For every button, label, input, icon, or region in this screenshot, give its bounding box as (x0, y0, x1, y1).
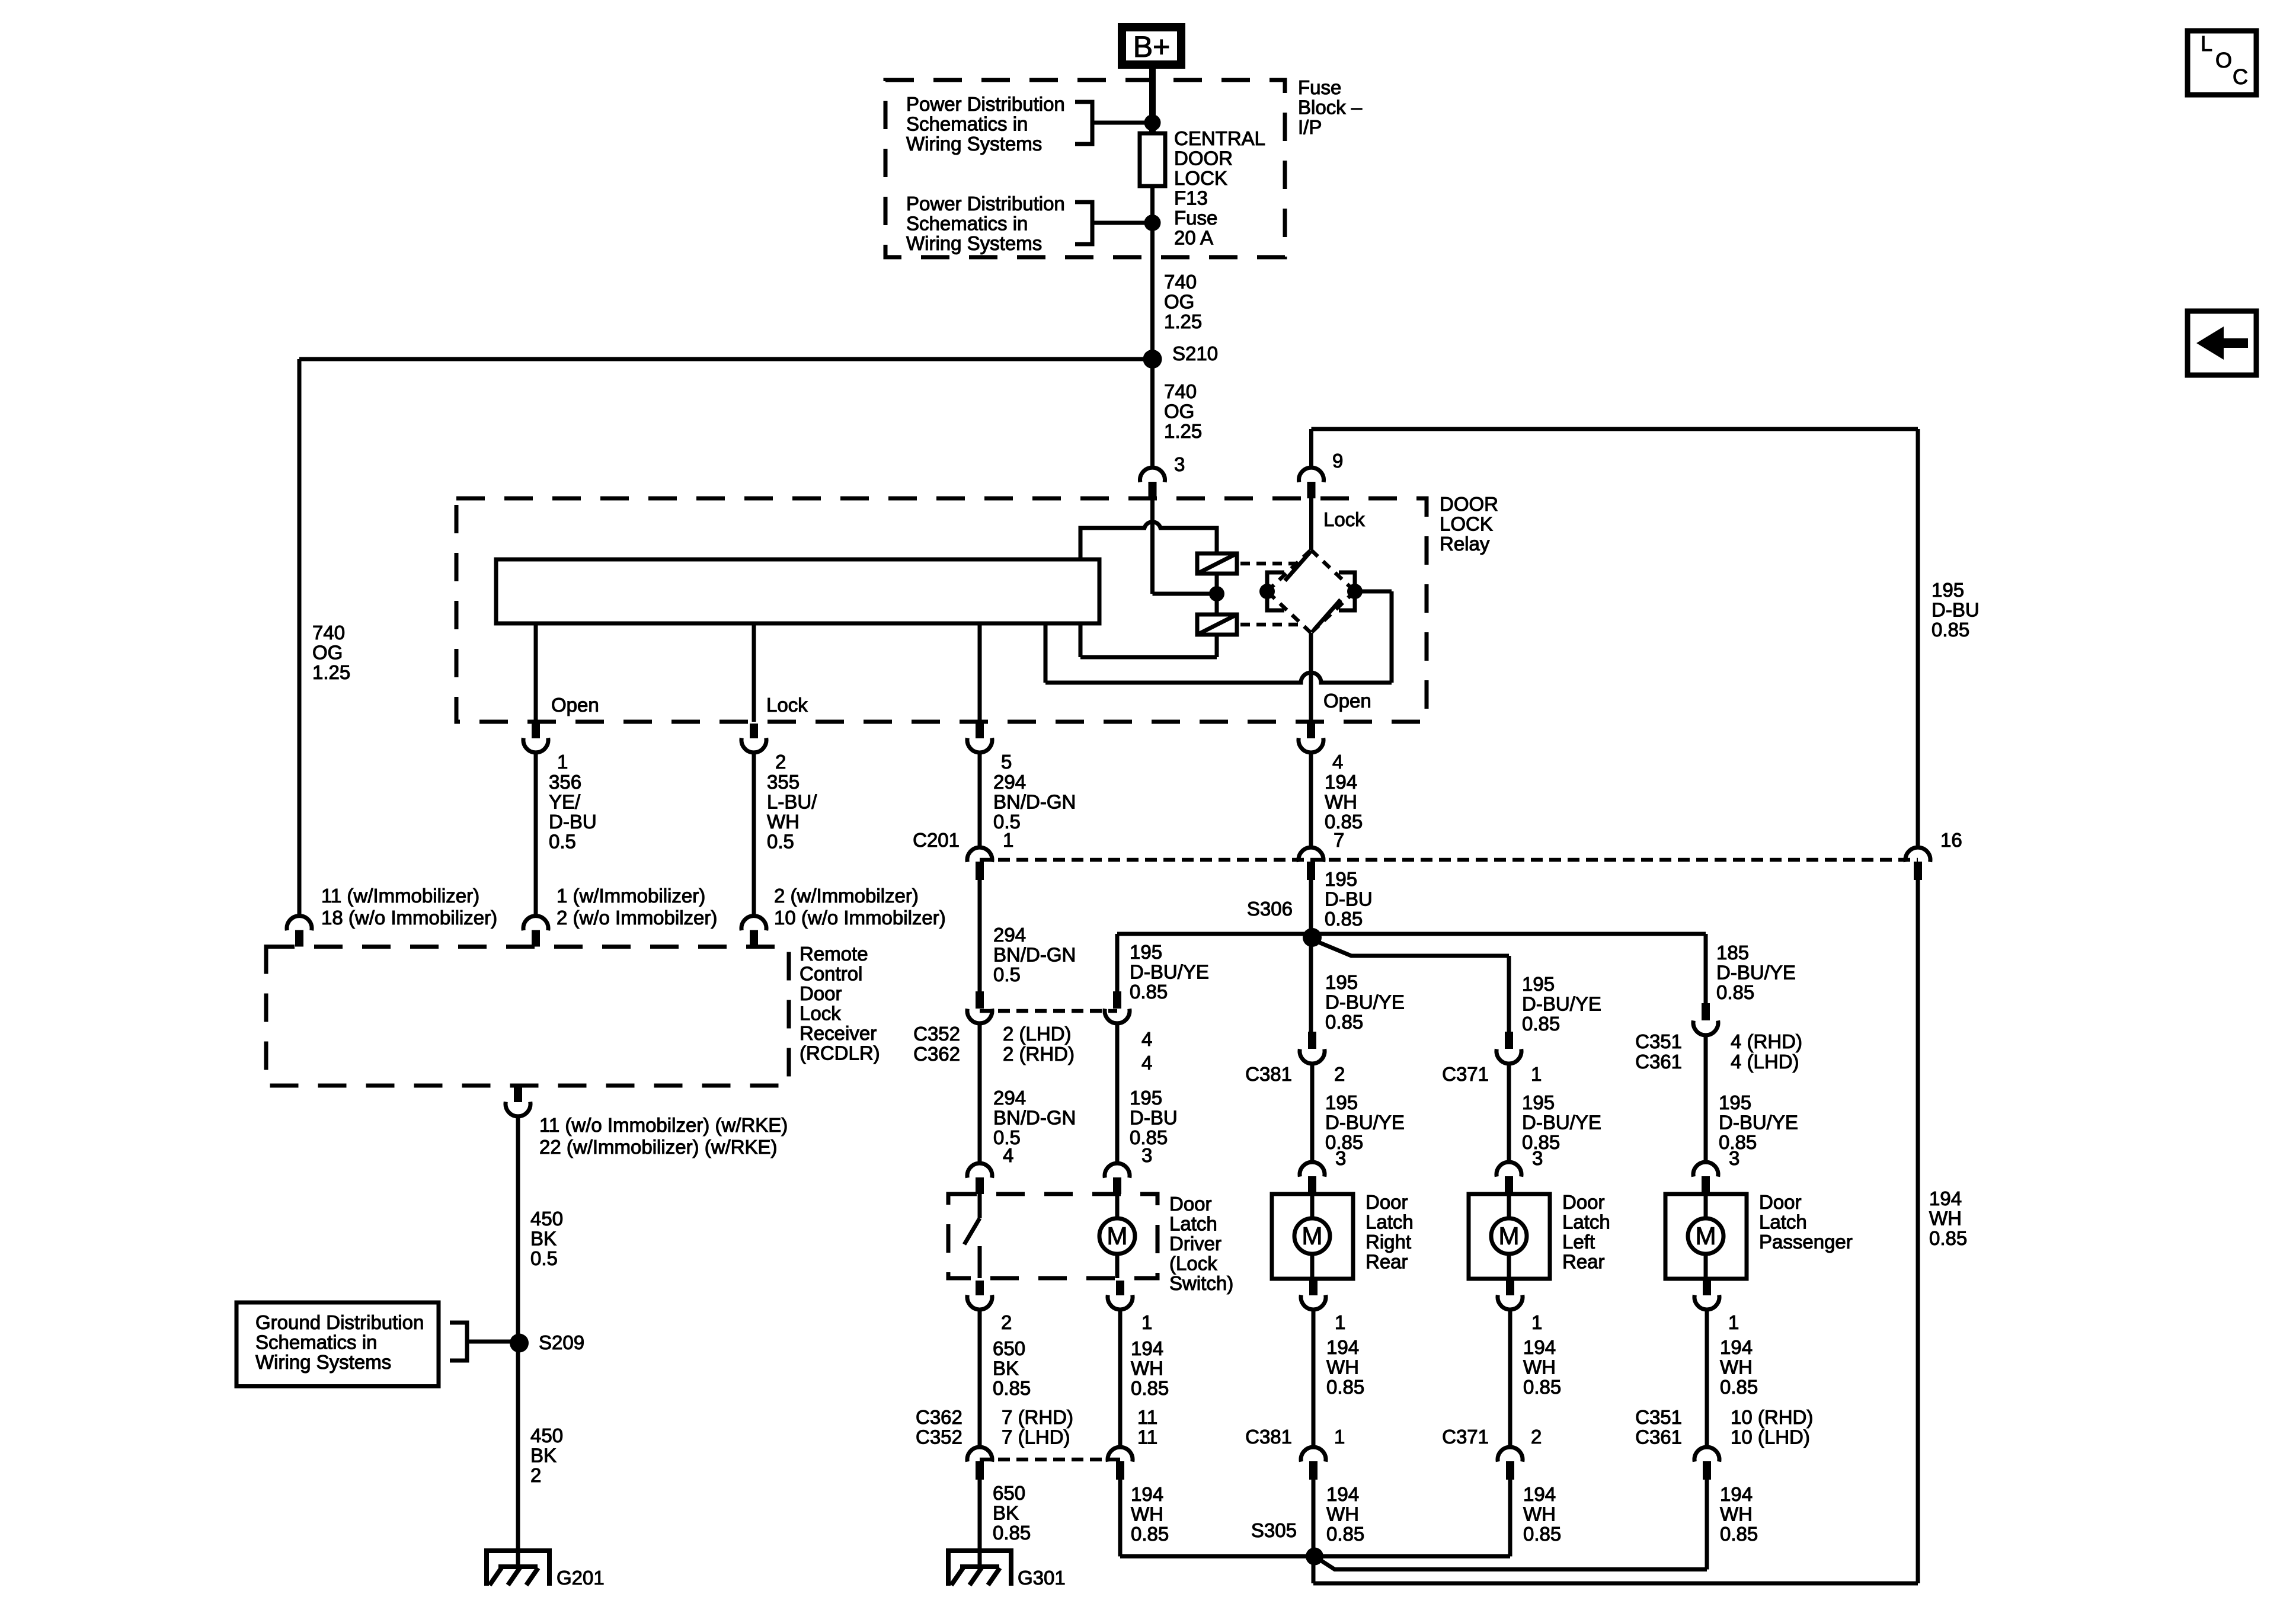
svg-text:0.85: 0.85 (1523, 1376, 1561, 1398)
svg-text:195: 195 (1130, 941, 1162, 963)
svg-text:1: 1 (1531, 1063, 1542, 1085)
svg-text:Wiring Systems: Wiring Systems (906, 133, 1042, 155)
svg-text:C381: C381 (1245, 1426, 1292, 1448)
svg-text:L-BU/: L-BU/ (767, 791, 817, 813)
svg-text:5: 5 (1001, 751, 1012, 773)
svg-text:4: 4 (1141, 1052, 1152, 1074)
svg-text:D-BU/YE: D-BU/YE (1719, 1112, 1798, 1134)
svg-text:3: 3 (1335, 1147, 1346, 1169)
svg-text:1: 1 (1334, 1426, 1345, 1448)
svg-text:BK: BK (993, 1502, 1019, 1524)
svg-text:1: 1 (1728, 1311, 1739, 1333)
svg-text:0.5: 0.5 (530, 1247, 558, 1269)
svg-text:Ground Distribution: Ground Distribution (255, 1311, 424, 1333)
svg-text:Power Distribution: Power Distribution (906, 193, 1065, 215)
svg-text:450: 450 (530, 1208, 563, 1230)
svg-text:3: 3 (1174, 453, 1185, 475)
svg-text:Lock: Lock (766, 694, 808, 716)
svg-text:Open: Open (1323, 690, 1371, 712)
svg-text:CENTRAL: CENTRAL (1174, 127, 1265, 149)
svg-text:BN/D-GN: BN/D-GN (993, 944, 1076, 966)
svg-text:WH: WH (767, 811, 800, 833)
svg-text:D-BU: D-BU (549, 811, 597, 833)
svg-text:LOCK: LOCK (1174, 167, 1227, 189)
svg-text:0.5: 0.5 (549, 831, 576, 853)
svg-text:195: 195 (1325, 971, 1358, 993)
svg-text:194: 194 (1325, 771, 1357, 793)
svg-text:C362: C362 (916, 1406, 962, 1428)
svg-text:740: 740 (1164, 271, 1197, 293)
svg-text:0.85: 0.85 (1326, 1376, 1364, 1398)
svg-text:2: 2 (1531, 1426, 1542, 1448)
svg-text:M: M (1499, 1222, 1520, 1250)
svg-text:C371: C371 (1442, 1426, 1489, 1448)
svg-text:2 (w/Immobilzer): 2 (w/Immobilzer) (774, 885, 919, 907)
svg-text:10 (w/o Immobilzer): 10 (w/o Immobilzer) (774, 907, 946, 929)
svg-text:10 (LHD): 10 (LHD) (1731, 1426, 1810, 1448)
svg-text:YE/: YE/ (549, 791, 581, 813)
svg-text:Wiring Systems: Wiring Systems (906, 232, 1042, 254)
svg-text:C361: C361 (1635, 1051, 1682, 1073)
svg-text:Left: Left (1562, 1231, 1595, 1253)
svg-text:Schematics in: Schematics in (906, 213, 1028, 235)
svg-text:Switch): Switch) (1169, 1272, 1233, 1294)
svg-text:0.85: 0.85 (993, 1522, 1031, 1544)
svg-text:294: 294 (993, 924, 1026, 946)
svg-text:Door: Door (1562, 1191, 1605, 1213)
svg-text:194: 194 (1929, 1188, 1962, 1209)
svg-text:194: 194 (1326, 1336, 1359, 1358)
svg-text:195: 195 (1522, 973, 1555, 995)
svg-text:194: 194 (1720, 1336, 1753, 1358)
svg-text:4: 4 (1141, 1028, 1152, 1050)
svg-text:Relay: Relay (1440, 533, 1490, 555)
svg-text:9: 9 (1332, 450, 1343, 472)
svg-text:Door: Door (800, 982, 842, 1004)
svg-text:0.85: 0.85 (1325, 1011, 1363, 1033)
svg-text:0.85: 0.85 (1716, 981, 1754, 1003)
svg-text:S305: S305 (1251, 1519, 1297, 1541)
svg-text:194: 194 (1326, 1483, 1359, 1505)
svg-text:1.25: 1.25 (1164, 311, 1202, 332)
svg-text:20 A: 20 A (1174, 227, 1213, 249)
svg-text:BK: BK (530, 1228, 557, 1250)
svg-text:C371: C371 (1442, 1063, 1489, 1085)
svg-text:Remote: Remote (800, 943, 868, 965)
svg-text:3: 3 (1141, 1144, 1152, 1166)
svg-text:WH: WH (1131, 1503, 1163, 1525)
svg-text:C201: C201 (913, 829, 960, 851)
svg-text:10 (RHD): 10 (RHD) (1731, 1406, 1813, 1428)
svg-text:11: 11 (1137, 1406, 1157, 1428)
svg-text:C351: C351 (1635, 1406, 1682, 1428)
svg-text:Door: Door (1366, 1191, 1408, 1213)
svg-text:Receiver: Receiver (800, 1022, 877, 1044)
svg-text:Schematics in: Schematics in (255, 1331, 377, 1353)
svg-text:Rear: Rear (1562, 1251, 1605, 1273)
svg-text:Lock: Lock (800, 1003, 841, 1025)
svg-text:194: 194 (1131, 1337, 1163, 1359)
svg-text:650: 650 (993, 1482, 1025, 1504)
svg-text:OG: OG (1164, 401, 1194, 422)
svg-text:0.85: 0.85 (993, 1377, 1031, 1399)
svg-text:2 (RHD): 2 (RHD) (1003, 1043, 1075, 1065)
svg-text:650: 650 (993, 1337, 1025, 1359)
svg-text:Passenger: Passenger (1759, 1231, 1853, 1253)
svg-text:WH: WH (1523, 1503, 1556, 1525)
svg-text:WH: WH (1523, 1356, 1556, 1378)
svg-text:Wiring Systems: Wiring Systems (255, 1351, 391, 1373)
svg-text:Door: Door (1759, 1191, 1802, 1213)
svg-text:2: 2 (775, 751, 786, 773)
svg-text:11 (w/Immobilizer): 11 (w/Immobilizer) (321, 885, 479, 907)
svg-text:0.85: 0.85 (1522, 1013, 1560, 1035)
svg-text:194: 194 (1523, 1483, 1556, 1505)
svg-text:D-BU/YE: D-BU/YE (1325, 991, 1405, 1013)
svg-text:OG: OG (1164, 291, 1194, 313)
svg-text:C: C (2233, 65, 2248, 89)
svg-text:BK: BK (993, 1358, 1019, 1379)
svg-text:LOCK: LOCK (1440, 513, 1493, 535)
svg-text:1.25: 1.25 (312, 661, 350, 683)
svg-text:I/P: I/P (1298, 116, 1322, 138)
svg-text:356: 356 (549, 771, 581, 793)
svg-text:Fuse: Fuse (1174, 207, 1217, 229)
svg-text:S209: S209 (539, 1331, 584, 1353)
svg-text:355: 355 (767, 771, 800, 793)
svg-text:2: 2 (1334, 1063, 1345, 1085)
svg-text:450: 450 (530, 1425, 563, 1446)
svg-text:Latch: Latch (1169, 1213, 1217, 1235)
svg-text:0.85: 0.85 (1325, 908, 1363, 930)
svg-text:C351: C351 (1635, 1030, 1682, 1052)
svg-text:1: 1 (557, 751, 568, 773)
svg-text:Latch: Latch (1562, 1211, 1610, 1233)
svg-text:1.25: 1.25 (1164, 420, 1202, 442)
svg-text:Lock: Lock (1323, 508, 1365, 530)
svg-text:194: 194 (1523, 1336, 1556, 1358)
svg-text:Door: Door (1169, 1193, 1212, 1215)
svg-text:WH: WH (1720, 1356, 1753, 1378)
svg-text:4 (LHD): 4 (LHD) (1731, 1051, 1799, 1073)
svg-text:D-BU: D-BU (1325, 888, 1373, 910)
svg-text:Power Distribution: Power Distribution (906, 93, 1065, 115)
svg-text:4: 4 (1003, 1144, 1013, 1166)
svg-text:4 (RHD): 4 (RHD) (1731, 1030, 1802, 1052)
svg-text:DOOR: DOOR (1174, 148, 1233, 169)
svg-text:7 (LHD): 7 (LHD) (1002, 1426, 1070, 1448)
svg-text:3: 3 (1729, 1147, 1739, 1169)
svg-text:Fuse: Fuse (1298, 76, 1341, 98)
svg-text:BK: BK (530, 1445, 557, 1467)
svg-text:0.85: 0.85 (1720, 1523, 1758, 1545)
svg-text:OG: OG (312, 642, 343, 664)
svg-text:BN/D-GN: BN/D-GN (993, 1107, 1076, 1129)
svg-text:(Lock: (Lock (1169, 1253, 1217, 1275)
svg-text:195: 195 (1932, 579, 1964, 601)
svg-text:S306: S306 (1247, 898, 1293, 920)
svg-text:1: 1 (1003, 829, 1013, 851)
svg-text:195: 195 (1325, 1092, 1358, 1113)
svg-text:D-BU: D-BU (1130, 1107, 1178, 1129)
svg-text:Latch: Latch (1366, 1211, 1414, 1233)
svg-text:195: 195 (1130, 1087, 1162, 1109)
svg-text:D-BU/YE: D-BU/YE (1130, 961, 1209, 983)
svg-text:C381: C381 (1245, 1063, 1292, 1085)
svg-text:0.85: 0.85 (1130, 981, 1168, 1003)
svg-text:D-BU/YE: D-BU/YE (1325, 1112, 1405, 1134)
svg-text:BN/D-GN: BN/D-GN (993, 791, 1076, 813)
svg-text:D-BU/YE: D-BU/YE (1522, 993, 1601, 1015)
svg-text:G301: G301 (1018, 1567, 1066, 1589)
svg-text:2: 2 (530, 1464, 541, 1486)
svg-text:S210: S210 (1172, 343, 1218, 364)
svg-text:Driver: Driver (1169, 1233, 1221, 1254)
svg-text:3: 3 (1532, 1147, 1543, 1169)
svg-text:195: 195 (1719, 1092, 1751, 1113)
svg-text:195: 195 (1325, 868, 1357, 890)
svg-text:O: O (2215, 48, 2232, 72)
svg-text:22 (w/Immobilizer) (w/RKE): 22 (w/Immobilizer) (w/RKE) (539, 1136, 778, 1158)
svg-text:194: 194 (1131, 1483, 1163, 1505)
svg-text:Latch: Latch (1759, 1211, 1807, 1233)
svg-text:D-BU/YE: D-BU/YE (1522, 1112, 1601, 1134)
svg-text:(RCDLR): (RCDLR) (800, 1042, 880, 1064)
svg-text:WH: WH (1929, 1208, 1962, 1230)
svg-text:4: 4 (1332, 751, 1343, 773)
svg-text:2: 2 (1001, 1311, 1012, 1333)
svg-text:Open: Open (551, 694, 599, 716)
svg-text:0.5: 0.5 (767, 831, 794, 853)
svg-text:194: 194 (1720, 1483, 1753, 1505)
svg-text:G201: G201 (557, 1567, 605, 1589)
svg-text:1 (w/Immobilizer): 1 (w/Immobilizer) (557, 885, 705, 907)
svg-text:7: 7 (1334, 829, 1344, 851)
svg-text:D-BU: D-BU (1932, 599, 1980, 621)
svg-text:WH: WH (1326, 1356, 1359, 1378)
svg-text:C352: C352 (916, 1426, 962, 1448)
svg-text:Right: Right (1366, 1231, 1411, 1253)
svg-text:M: M (1107, 1222, 1128, 1250)
svg-text:1: 1 (1335, 1311, 1345, 1333)
svg-text:195: 195 (1522, 1092, 1555, 1113)
svg-text:0.85: 0.85 (1932, 619, 1969, 641)
svg-text:740: 740 (1164, 380, 1197, 402)
svg-text:1: 1 (1141, 1311, 1152, 1333)
svg-text:C352: C352 (913, 1023, 960, 1045)
svg-text:WH: WH (1131, 1358, 1163, 1379)
svg-text:DOOR: DOOR (1440, 493, 1498, 515)
svg-text:11 (w/o Immobilzer) (w/RKE): 11 (w/o Immobilzer) (w/RKE) (539, 1114, 788, 1136)
svg-text:740: 740 (312, 622, 345, 644)
svg-text:D-BU/YE: D-BU/YE (1716, 962, 1796, 984)
svg-text:Control: Control (800, 963, 862, 985)
svg-text:0.85: 0.85 (1131, 1523, 1169, 1545)
svg-text:F13: F13 (1174, 187, 1208, 209)
svg-text:Block –: Block – (1298, 97, 1363, 119)
svg-text:185: 185 (1716, 942, 1749, 964)
svg-text:0.85: 0.85 (1131, 1377, 1169, 1399)
svg-text:C362: C362 (913, 1043, 960, 1065)
svg-text:0.85: 0.85 (1523, 1523, 1561, 1545)
svg-text:WH: WH (1326, 1503, 1359, 1525)
svg-text:16: 16 (1940, 829, 1962, 851)
svg-text:0.85: 0.85 (1720, 1376, 1758, 1398)
svg-text:2 (w/o Immobilzer): 2 (w/o Immobilzer) (557, 907, 717, 929)
svg-text:2 (LHD): 2 (LHD) (1003, 1023, 1072, 1045)
svg-text:L: L (2201, 31, 2212, 56)
svg-text:18 (w/o Immobilizer): 18 (w/o Immobilizer) (321, 907, 497, 929)
svg-text:1: 1 (1531, 1311, 1542, 1333)
svg-text:11: 11 (1137, 1426, 1157, 1448)
svg-text:B+: B+ (1133, 30, 1171, 63)
svg-text:WH: WH (1325, 791, 1357, 813)
svg-text:0.85: 0.85 (1326, 1523, 1364, 1545)
svg-text:0.85: 0.85 (1929, 1227, 1967, 1249)
svg-text:M: M (1302, 1222, 1323, 1250)
svg-text:0.5: 0.5 (993, 964, 1021, 985)
svg-text:WH: WH (1720, 1503, 1753, 1525)
svg-text:7 (RHD): 7 (RHD) (1002, 1406, 1073, 1428)
svg-text:Schematics in: Schematics in (906, 113, 1028, 135)
svg-text:C361: C361 (1635, 1426, 1682, 1448)
svg-text:294: 294 (993, 1087, 1026, 1109)
svg-text:Rear: Rear (1366, 1251, 1408, 1273)
svg-text:294: 294 (993, 771, 1026, 793)
svg-text:M: M (1696, 1222, 1716, 1250)
